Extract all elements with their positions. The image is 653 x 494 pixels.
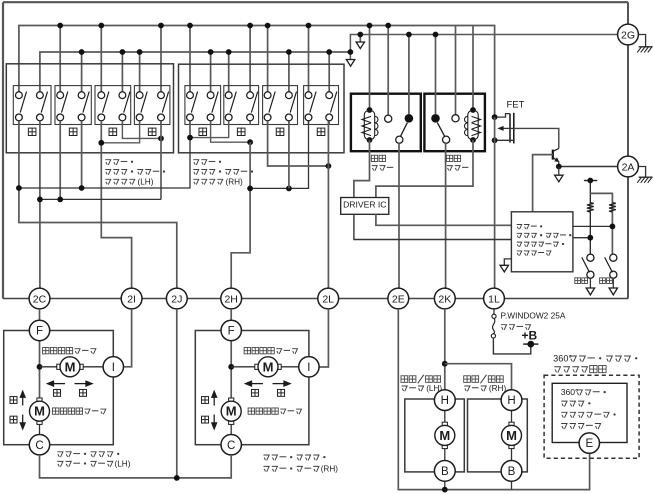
node H1a mid [79, 185, 85, 191]
wire bus B second [40, 52, 351, 92]
label left-right adjust motor RH [244, 348, 250, 354]
wire M2 to C LH [39, 424, 41, 434]
FET gate wire [495, 114, 510, 118]
wire 2J down to C-C link [176, 309, 178, 478]
wire C LH to C RH bottom link [40, 455, 232, 478]
node bus B to 2G feed junction [348, 49, 354, 55]
svg-text:2K: 2K [438, 293, 451, 305]
node RH crossover b [247, 139, 253, 145]
node module-R2 junction [610, 224, 616, 230]
wire module right out2 [573, 237, 590, 239]
motor M1 left-right LH [57, 357, 83, 377]
manual switch retract [582, 254, 595, 295]
wire emitter to 2A node [558, 161, 560, 166]
circle H terminal RH [501, 390, 522, 411]
node H1b b [286, 186, 292, 192]
connector 2E [388, 288, 409, 309]
node 2L line junction [326, 163, 332, 169]
svg-text:M: M [226, 404, 237, 419]
wire H1a horizontal [19, 138, 190, 188]
power outer mirror switch RH outline [179, 64, 345, 153]
transistor collector lead [553, 148, 559, 151]
wire resistor column 1 [589, 181, 591, 255]
node stub junction [357, 32, 363, 38]
wire LH crossover left pair [122, 121, 161, 139]
direction arrows up-down LH [20, 391, 25, 429]
switch 左 LH cell [95, 86, 131, 125]
wire M2 to C RH [230, 424, 232, 434]
node module-R1 junction [587, 235, 593, 241]
wire connector row [3, 298, 628, 300]
svg-text:B: B [441, 466, 449, 478]
wire LH crossover right pair [101, 121, 139, 143]
circle E terminal [579, 433, 599, 453]
wires bus B drops to switch contacts [79, 49, 332, 95]
wire junction to M1 LH [40, 366, 58, 368]
label 右 RH [317, 128, 325, 135]
connector 2I [121, 288, 142, 309]
label return relay [446, 155, 452, 161]
node retract feed split [442, 361, 448, 367]
manual switch return [605, 254, 618, 295]
connector 2K [434, 288, 455, 309]
svg-text:2H: 2H [224, 293, 237, 305]
wire relay1 common to 2E [398, 143, 400, 288]
svg-text:2J: 2J [171, 293, 182, 305]
node H2 b [57, 197, 63, 203]
direction arrows left-right LH [48, 381, 93, 386]
switch 上 RH cell [185, 86, 221, 125]
svg-text:I: I [112, 362, 115, 374]
node RH crossover a [187, 135, 193, 141]
+B terminal [523, 341, 538, 348]
wire top frame bus [3, 1, 628, 3]
node T-bar terminal [584, 180, 597, 182]
motor M2 up-down RH [221, 398, 241, 424]
connector 2G [618, 24, 639, 45]
label retract relay [371, 155, 377, 161]
wire LH down-left contact to H2 [59, 121, 61, 200]
retract motor RH box [468, 399, 528, 472]
label control module [517, 225, 522, 230]
wire H2 horizontal [40, 198, 161, 200]
relay retract (kakunou) box [351, 94, 421, 152]
svg-text:E: E [585, 438, 593, 450]
label power outer mirror switch LH [105, 160, 111, 165]
resistor R2 [609, 203, 616, 212]
relay retract armature [401, 123, 408, 137]
wire 2K down to retract motors [444, 309, 446, 390]
power outer mirror control module box [511, 212, 573, 272]
wire F to junction RH [230, 341, 232, 401]
connector 1L [484, 288, 505, 309]
wire LH up-right contact to 2C [39, 121, 41, 288]
DRIVER IC box [341, 198, 389, 215]
wire M1 to I RH [281, 366, 299, 368]
relay return coil [465, 26, 481, 143]
wire H-M-B column RH [511, 411, 513, 461]
connector arrow below bus B junction [346, 60, 354, 67]
wire 2A horizontal [559, 166, 618, 168]
svg-text:F: F [36, 326, 43, 338]
svg-text:F: F [228, 326, 235, 338]
label shita LH [10, 416, 17, 423]
FET gate bar [509, 114, 511, 143]
wire LH right-right contact to H2 end [160, 121, 162, 200]
label 右 LH [148, 128, 156, 135]
connector 2J [166, 288, 187, 309]
node 2G line relay2 NO [433, 32, 439, 38]
wire driver ic out2 to module [354, 214, 512, 239]
connector 2C [29, 288, 50, 309]
fuse P.WINDOW2 25A [491, 314, 496, 338]
switch 下 RH cell [224, 86, 259, 125]
circle B terminal LH [434, 461, 455, 482]
circle F terminal RH [221, 320, 241, 340]
wire base from control module [533, 155, 553, 212]
svg-text:FET: FET [507, 99, 525, 110]
svg-text:I: I [307, 362, 310, 374]
svg-text:(LH): (LH) [138, 177, 154, 186]
wire relay2 common to 2K [445, 143, 447, 288]
transistor base bar [552, 150, 554, 160]
wire H1b horizontal [250, 121, 308, 189]
relay retract common contact [396, 136, 403, 143]
relay retract coil [362, 26, 378, 143]
circle C terminal RH [221, 435, 241, 455]
retract motor M RH [502, 422, 522, 448]
connector 2A [618, 156, 639, 177]
circle F terminal LH [29, 320, 49, 340]
svg-text:H: H [507, 395, 515, 407]
node LH crossover junction b [98, 140, 104, 146]
node emitter junction [556, 164, 562, 170]
svg-text:B: B [508, 466, 516, 478]
wire B RH to bottom bus [511, 481, 513, 489]
wire right bus 2G-2A column [627, 2, 629, 298]
wire RH crossover up pair [190, 121, 229, 138]
wire retract feed to RH motor [445, 364, 512, 390]
wire branch to resistor 2 [590, 193, 612, 254]
wire B LH to bottom bus [444, 481, 446, 489]
relay return NC contact [452, 26, 459, 122]
wire M1 to I LH [83, 366, 103, 368]
svg-text:C: C [35, 440, 43, 452]
svg-text:1L: 1L [488, 293, 500, 305]
ground at 2G [638, 35, 645, 47]
node 2G line relay1 NO [406, 32, 412, 38]
label ue LH [10, 397, 17, 404]
relay return armature [437, 123, 444, 137]
wire F to junction LH [39, 341, 41, 401]
svg-text:2L: 2L [322, 293, 334, 305]
svg-text:(LH): (LH) [115, 459, 131, 468]
circle H terminal LH [434, 390, 455, 411]
circle C terminal LH [29, 435, 49, 455]
label 上 LH [28, 128, 36, 135]
label hidari RH [251, 389, 258, 396]
connector arrow below emitter node [555, 175, 563, 182]
label kakunou (manual sw) [575, 278, 581, 284]
connector arrow on 2G line stub [356, 42, 364, 49]
label retract/return motor LH [401, 376, 408, 383]
power outer mirror motor LH box [4, 331, 114, 445]
node bus A relay1 coil [367, 23, 373, 29]
label fukki (manual sw) [600, 278, 606, 284]
connector 2H [221, 288, 242, 309]
circle I terminal LH [103, 357, 123, 377]
svg-text:2G: 2G [621, 29, 635, 41]
wire 2H to F RH [230, 309, 232, 321]
node motor junction RH [228, 364, 234, 370]
label power outer mirror motor LH [57, 452, 63, 457]
svg-text:M: M [263, 359, 274, 374]
switch 右 RH cell [304, 86, 339, 125]
direction arrows left-right RH [246, 381, 291, 386]
svg-text:M: M [439, 428, 450, 443]
label shita RH [201, 416, 208, 423]
power outer mirror motor RH box [195, 331, 309, 445]
FET body arrow [497, 126, 503, 131]
node FET source tap [492, 137, 498, 143]
node H1a left [16, 185, 22, 191]
wire stub to arrow below emitter node [558, 167, 560, 176]
label migi RH [277, 389, 284, 396]
wire LH down-right contact to H1a [81, 121, 83, 188]
svg-text:H: H [441, 395, 449, 407]
wire driver ic out1 to module [376, 214, 512, 225]
relay return (fukki) box [424, 94, 485, 152]
wires bus A drops to switch contacts [57, 23, 311, 96]
label ue RH [201, 397, 208, 404]
node FET gate tap [492, 114, 498, 120]
wire stub to arrow on 2G line [359, 35, 361, 43]
wire 2E down to bottom bus [398, 309, 589, 490]
label 左 RH [276, 128, 284, 135]
connector 2L [318, 288, 339, 309]
label left-right adjust motor LH [43, 348, 49, 354]
wire FET drain to transistor collector [514, 128, 559, 148]
label up-down adjust motor LH [52, 408, 58, 414]
wire RH up-left contact down [189, 121, 191, 138]
FET channel bar [513, 113, 515, 144]
label migi LH [79, 389, 86, 396]
switch 左 RH cell [263, 86, 298, 125]
node bus A relay1 NC [385, 23, 391, 29]
svg-text:P.WINDOW2 25A: P.WINDOW2 25A [501, 311, 566, 321]
motor M1 left-right RH [255, 357, 281, 377]
transistor emitter lead with arrow [553, 158, 558, 162]
wire relay2 coil to driver ic [376, 140, 473, 198]
svg-text:(RH): (RH) [226, 177, 244, 186]
node H1b a [247, 186, 253, 192]
label up-down adjust motor RH [248, 408, 254, 414]
wire RH common to H1b to 2H [231, 142, 250, 288]
node 2J bottom junction [174, 475, 180, 481]
wire module right out1 [573, 225, 613, 227]
relay retract NC contact [385, 26, 392, 123]
circle I terminal RH [299, 357, 319, 377]
switch 下 LH cell [55, 86, 91, 125]
wire 2L to I RH [319, 309, 328, 367]
wire fuse to +B [493, 338, 530, 354]
label power outer mirror switch RH [193, 160, 199, 165]
label 左 LH [109, 128, 117, 135]
wire module output to arrow [504, 259, 511, 265]
wire 2I to I LH [124, 309, 132, 367]
motor M2 up-down LH [30, 398, 50, 424]
wire LH left-left contact jog to 2I [101, 121, 131, 288]
power outer mirror switch LH outline [6, 64, 173, 153]
node motor junction LH [37, 364, 43, 370]
FET source stub [495, 139, 514, 141]
wire H-M-B column LH [444, 411, 446, 461]
circle B terminal RH [501, 461, 522, 482]
connector arrow module lower left [500, 265, 508, 272]
node B LH bottom junction [442, 487, 448, 493]
svg-text:M: M [506, 428, 517, 443]
svg-text:+B: +B [522, 329, 538, 343]
svg-text:2I: 2I [127, 293, 136, 305]
svg-text:(RH): (RH) [321, 464, 339, 473]
label 下 LH [69, 128, 77, 135]
label 上 RH [199, 128, 207, 135]
resistor R1 [587, 203, 594, 212]
switch 上 LH cell [13, 86, 51, 125]
svg-text:M: M [65, 359, 76, 374]
direction arrows up-down RH [212, 391, 217, 429]
svg-text:2A: 2A [622, 161, 635, 173]
360 control module box [552, 383, 627, 442]
wire junction to M1 RH [231, 366, 255, 368]
node LH crossover junction a [158, 136, 164, 142]
svg-text:2C: 2C [33, 293, 47, 305]
wire RH box3-right contact to H1b [288, 121, 290, 189]
label 下 RH [237, 128, 245, 135]
switch 右 LH cell [134, 86, 170, 125]
svg-text:(RH): (RH) [489, 384, 507, 393]
label power outer mirror motor RH [263, 455, 269, 460]
label retract/return motor RH [464, 376, 471, 383]
wire bus A top [19, 26, 495, 118]
wire 2G feed line [350, 35, 618, 60]
wire relay1 coil to driver ic [354, 140, 370, 198]
svg-text:360°: 360° [561, 387, 579, 397]
360 system dashed box [544, 375, 639, 458]
relay return NO contact [431, 35, 440, 123]
relay retract NO contact [405, 35, 414, 123]
node H2 a [37, 197, 43, 203]
relay return common contact [443, 136, 450, 143]
ground at 2A [638, 167, 645, 178]
svg-text:C: C [227, 440, 235, 452]
svg-text:360°: 360° [553, 353, 572, 363]
retract motor LH box [405, 399, 465, 472]
wire 1L to fuse [493, 309, 495, 314]
wire left frame bus [2, 2, 4, 298]
wire FET source column to 1L [494, 117, 496, 288]
wire RH crossover down pair [211, 121, 251, 142]
wire 2C to F LH [39, 309, 41, 321]
wire LH up-left contact to H3 to 2J [19, 121, 177, 288]
retract motor M LH [435, 422, 455, 448]
label hidari LH [53, 389, 60, 396]
svg-text:2E: 2E [392, 293, 405, 305]
wire RH left-left contact to 2L line [268, 121, 329, 166]
svg-text:M: M [34, 404, 45, 419]
wire RH right-right contact to 2L [327, 121, 329, 288]
svg-text:DRIVER IC: DRIVER IC [343, 199, 386, 209]
